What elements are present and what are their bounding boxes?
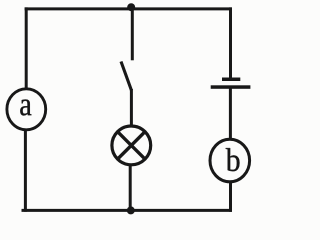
wire bottom rail: [22, 209, 232, 212]
wire switch to lamp: [130, 89, 133, 126]
wire lamp to bottom node: [129, 165, 132, 210]
wire top rail: [25, 7, 232, 10]
wire right rail lower: [229, 181, 232, 212]
node junction dot top: [127, 3, 135, 11]
wire right rail upper: [229, 7, 232, 79]
meter b label: [226, 148, 240, 171]
wire left rail upper: [25, 7, 28, 90]
wire middle branch upper: [131, 7, 134, 60]
meter b circle: [210, 139, 250, 182]
lamp L circle: [112, 126, 151, 165]
wire right rail middle (battery to meter b): [229, 87, 232, 140]
battery cell long plate: [211, 85, 251, 89]
wire left rail lower: [24, 129, 27, 212]
meter a circle: [7, 89, 46, 130]
meter a label: [20, 100, 31, 116]
lamp L cross: [119, 133, 144, 158]
switch S blade (open): [121, 62, 132, 91]
node junction dot bottom: [127, 206, 135, 214]
battery cell short plate: [222, 78, 240, 82]
